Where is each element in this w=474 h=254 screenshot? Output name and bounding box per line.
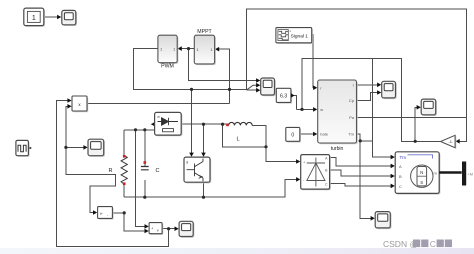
arrow scope6 input <box>371 216 375 221</box>
svg-text:Signal 1: Signal 1 <box>291 34 309 40</box>
svg-text:Tm: Tm <box>400 155 407 160</box>
wire signal builder to turbine r <box>312 35 314 88</box>
wire node duty branch down to y80 line into scope3 top <box>189 49 257 81</box>
node power junction <box>228 88 231 91</box>
wire C bottom leg <box>144 180 146 197</box>
wire Pa output long line <box>357 116 467 118</box>
svg-text:v: v <box>157 227 159 232</box>
wire R bottom leg <box>123 184 125 197</box>
wire voltage output to scope5 <box>162 228 175 230</box>
wire vertical from y58 line down joining Tm route <box>371 59 373 141</box>
arrow bridge minus <box>296 177 300 182</box>
svg-text:1: 1 <box>32 15 36 22</box>
node bottom rail emitter junction <box>202 196 205 199</box>
current measurement block <box>98 207 114 220</box>
arrow scope5 input <box>175 226 179 231</box>
svg-text:C: C <box>399 184 402 189</box>
scope fed from gain line <box>421 99 437 116</box>
svg-text:C: C <box>156 168 160 174</box>
thick measurement line to bus <box>439 171 462 173</box>
node duty junction <box>187 47 190 50</box>
arrow turbine w <box>313 107 317 112</box>
wire product output to MPPT vertical <box>87 103 230 105</box>
arrow diode left stub <box>151 122 155 127</box>
signal builder block Signal 1 <box>276 28 313 44</box>
constant block value 6.3 <box>276 88 294 103</box>
ARROWHEADS <box>28 15 460 234</box>
wire gain output to left and up <box>302 59 441 142</box>
svg-text:0: 0 <box>291 133 294 139</box>
arrow bridge plus <box>296 159 300 164</box>
wire branch down to scope6 <box>360 141 371 218</box>
arrow voltage minus input <box>145 229 149 234</box>
wire MPPT output to PWM input <box>180 48 194 50</box>
arrow machine C <box>391 184 395 189</box>
wire top rail R C diode <box>124 124 155 130</box>
arrow into scope0 <box>57 15 61 20</box>
svg-text:bate: bate <box>320 132 329 137</box>
arrow machine A <box>391 164 395 169</box>
arrow into gain input <box>456 139 460 144</box>
svg-text:<M: <M <box>468 173 473 177</box>
arrow scope2 input <box>417 105 421 110</box>
svg-text:PWM: PWM <box>161 64 174 70</box>
svg-text:C: C <box>430 239 436 249</box>
wire branch up to scope2 <box>415 107 417 141</box>
wire inductor right to bridge plus <box>252 125 297 161</box>
wire product input1 from voltage feedback <box>56 101 168 247</box>
wire bottom rail <box>124 179 297 197</box>
arrow turbine r <box>313 85 317 90</box>
wire MPPT input vertical <box>215 49 230 103</box>
arrow turbine bate <box>313 132 317 137</box>
inductor L <box>226 122 252 142</box>
svg-text:Pa: Pa <box>349 115 355 120</box>
wire PWM output loop left-down-right (gate line) <box>133 49 246 90</box>
wire current block right to voltage minus <box>112 213 145 231</box>
diode bridge block <box>301 155 331 191</box>
scope Scope0 <box>62 10 77 26</box>
capacitor C <box>141 161 160 174</box>
arrow scope4 input <box>83 145 87 150</box>
svg-text:L: L <box>236 137 239 143</box>
node inductor branch junction <box>264 145 267 148</box>
arrow into IGBT collector <box>201 153 206 157</box>
diode block <box>155 112 183 136</box>
node current measure junction <box>123 211 126 214</box>
svg-text:-1.: -1. <box>448 139 453 144</box>
wire diagonal jog into scope3 middle <box>247 85 257 90</box>
svg-text:turbin: turbin <box>331 146 344 152</box>
wire turbine Tm to machine Tm <box>357 134 392 157</box>
svg-text:A: A <box>399 164 402 169</box>
wire bridge A to machine A <box>330 157 391 166</box>
arrow scope3 input2 <box>256 83 260 88</box>
wire turbine top output to scope1 <box>357 84 378 86</box>
subsystem MPPT <box>194 29 216 65</box>
resistor R <box>109 155 128 185</box>
scope near resistor <box>88 139 105 157</box>
wire branch from diode line down right to node <box>223 124 266 147</box>
node voltage output junction <box>167 227 170 230</box>
wire bridge B to machine B <box>330 170 391 176</box>
arrow into MPPT right port <box>215 47 219 52</box>
node rail R junction <box>134 128 137 131</box>
wire IGBT emitter leg <box>203 182 205 197</box>
arrow machine Tm <box>391 155 395 160</box>
node diode line collector junction <box>202 123 205 126</box>
svg-text:g: g <box>186 160 188 164</box>
arrow current block input <box>93 210 97 215</box>
arrow into PWM right port <box>178 46 182 51</box>
svg-text:S: S <box>420 180 423 185</box>
wire constant1 to scope0 <box>44 16 60 18</box>
wire diode output line to inductor <box>181 123 228 125</box>
bottom band <box>0 248 474 254</box>
node gate junction <box>190 88 193 91</box>
svg-text:CSDN @: CSDN @ <box>383 239 418 249</box>
wire gate vertical to IGBT gate <box>191 89 193 153</box>
node turbine Tm junction <box>359 139 362 142</box>
wire product input2 from current loop <box>66 106 115 212</box>
wire into scope3 bottom <box>247 89 257 91</box>
scope with three inputs <box>261 78 276 96</box>
constant block value 0 <box>286 127 301 142</box>
node scope4 branch junction <box>64 146 67 149</box>
node diode line branch junction <box>221 123 224 126</box>
subsystem PWM <box>158 35 179 69</box>
svg-text:Tm: Tm <box>348 132 354 137</box>
arrow machine B <box>391 174 395 179</box>
wire 6.3 constant to turbine w <box>291 96 297 110</box>
arrow product input2 <box>67 104 71 109</box>
subsystem turbin <box>318 80 358 152</box>
svg-text:w: w <box>320 107 323 112</box>
svg-text:N: N <box>420 170 423 175</box>
wire R top leg <box>123 130 125 156</box>
pulse generator block <box>16 140 30 157</box>
svg-text:m: m <box>157 115 160 119</box>
voltage measurement block <box>149 223 163 235</box>
arrow pulse generator stub <box>28 146 32 151</box>
arrow into IGBT gate <box>189 153 194 157</box>
arrow scope1 input1 <box>377 83 381 88</box>
node w input junction <box>300 108 303 111</box>
wire Pa down to gain input <box>460 117 467 141</box>
wire 0 constant to turbine bate <box>300 133 314 135</box>
constant block value 1 <box>24 8 45 27</box>
wire rail down branch to voltage plus <box>136 130 146 227</box>
svg-text:B: B <box>399 174 402 179</box>
scope below turbine <box>375 212 391 230</box>
arrow scope1 input2 <box>377 90 381 95</box>
wire into turbine w port <box>297 108 314 110</box>
watermark CSDN <box>383 239 452 249</box>
gain block -1 flipped <box>441 135 457 149</box>
svg-text:Cp: Cp <box>349 98 355 103</box>
wire turbine Cp to scope1 second input <box>357 93 378 101</box>
scope for turbine outputs <box>382 81 397 99</box>
wire big feedback rectangle top <box>247 9 467 117</box>
product block <box>72 96 88 112</box>
arrow scope3 input1 <box>256 78 260 83</box>
node rail C junction <box>143 128 146 131</box>
arrow scope3 input3 <box>256 88 260 93</box>
svg-text:R: R <box>109 168 113 174</box>
wire bridge C to machine C <box>330 184 391 186</box>
permanent magnet machine block <box>395 152 440 195</box>
node gain output junction <box>414 140 417 143</box>
arrow voltage plus input <box>145 224 149 229</box>
arrow product input1 <box>67 98 71 103</box>
IGBT block <box>184 157 211 183</box>
wire branch to scope4 <box>66 146 84 148</box>
svg-text:MPPT: MPPT <box>197 29 212 35</box>
bus terminator bar <box>462 162 473 186</box>
wire C top leg <box>144 130 146 166</box>
wire IGBT collector vertical <box>203 124 205 153</box>
svg-text:6.3: 6.3 <box>280 94 287 100</box>
scope after voltage measurement <box>179 221 194 237</box>
node bottom rail C junction <box>143 196 146 199</box>
